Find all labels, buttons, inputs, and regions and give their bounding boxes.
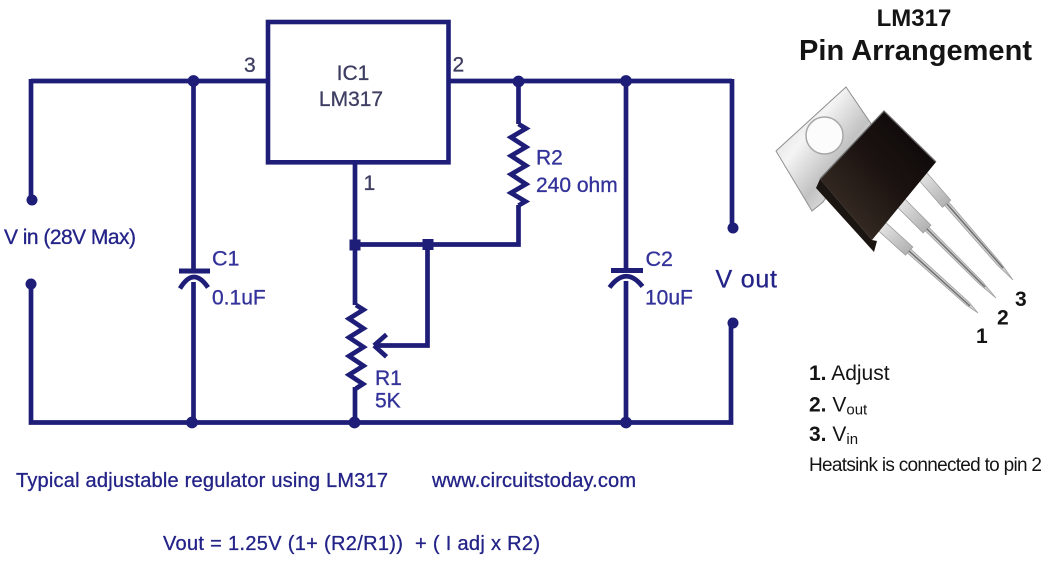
svg-text:Typical adjustable regulator u: Typical adjustable regulator using LM317 [16,470,388,492]
node Vout lower terminal [728,318,739,329]
resistor R2 zigzag [511,124,526,206]
pin number 1 of IC1 [364,172,376,195]
svg-text:1. Adjust: 1. Adjust [809,362,890,385]
svg-text:2. Vout: 2. Vout [809,394,868,419]
svg-text:3. Vin: 3. Vin [809,423,858,448]
svg-text:C1: C1 [212,247,239,271]
resistor R1 zigzag potentiometer [349,305,364,389]
wire IC pin 1 vertical [353,164,358,245]
wire wiper vertical from junction [377,245,428,346]
node junction C2 bottom [620,417,632,429]
svg-text:5K: 5K [375,390,401,413]
wire C1 branch lower [191,282,196,423]
svg-text:2: 2 [997,307,1009,330]
svg-text:C2: C2 [646,247,673,271]
LM317 package plastic body left side face [816,179,877,252]
LM317 package metal tab [776,87,874,211]
wire top rail from Vin corner to IC pin 3 [31,79,268,84]
capacitor C2 [610,268,644,288]
wire adj horizontal to R2 bottom [355,205,519,245]
formula Vout equation [163,533,540,555]
svg-text:240 ohm: 240 ohm [536,174,618,197]
wire left input rail upper segment [29,79,34,200]
wire left input rail lower segment [31,284,192,423]
IC op U1 box IC1 LM317 [268,22,449,162]
pin number 2 of IC1 [453,54,465,77]
node junction pin1 / R1 top [350,240,361,251]
title Pin Arrangement [799,35,1032,67]
svg-text:3: 3 [244,54,256,77]
node Vin lower terminal [26,279,37,290]
svg-text:R1: R1 [375,367,402,390]
label 10uF [645,287,693,310]
svg-text:V in (28V Max): V in (28V Max) [4,226,136,249]
label 5K [375,390,401,413]
LM317 package pin 3 lead [915,168,1013,280]
wiper arrowhead pointing at R1 [374,335,387,357]
legend 1. Adjust [809,362,890,385]
svg-text:IC1: IC1 [337,62,370,85]
svg-text:3: 3 [1015,288,1027,311]
node junction wiper branch [423,239,434,250]
svg-text:Pin Arrangement: Pin Arrangement [799,35,1032,67]
svg-text:V out: V out [716,266,778,294]
capacitor C1 [179,269,210,289]
LM317 package plastic body front face [820,111,936,240]
label V out [716,266,778,294]
node junction R1 bottom [349,417,361,429]
wire R2 branch upper [516,81,521,124]
label R1 [375,367,402,390]
note Heatsink is connected to pin 2 [809,455,1042,476]
legend 2. Vout [809,394,868,419]
svg-text:0.1uF: 0.1uF [212,287,266,310]
label 0.1uF [212,287,266,310]
svg-text:1: 1 [976,325,988,348]
svg-text:LM317: LM317 [319,88,383,111]
svg-text:Heatsink is connected to pin 2: Heatsink is connected to pin 2 [809,455,1042,476]
wire R1 branch lower [353,387,358,423]
caption Typical adjustable regulator using LM317 [16,470,388,492]
wire right output rail upper segment [730,79,735,228]
label IC1 [337,62,370,85]
label V in (28V Max) [4,226,136,249]
LM317 package pin 2 lead [893,195,996,298]
svg-text:LM317: LM317 [877,5,952,32]
node junction C1 bottom [186,417,198,429]
package pin label 2 [997,307,1009,330]
label LM317 [319,88,383,111]
label 240 ohm [536,174,618,197]
package pin label 3 [1015,288,1027,311]
wire top rail from IC pin 2 to Vout corner [447,79,732,84]
node Vin upper terminal [27,195,38,206]
label R2 [536,147,563,170]
node Vout upper terminal [728,223,739,234]
svg-text:www.circuitstoday.com: www.circuitstoday.com [431,470,636,492]
wire C2 branch upper [624,81,629,269]
node junction C2 top [620,75,632,87]
LM317 package pin 1 lead [874,219,978,313]
svg-text:2: 2 [453,54,465,77]
svg-text:R2: R2 [536,147,563,170]
node junction C1 top [188,75,200,87]
wire C1 branch upper [191,81,196,269]
pin number 3 of IC1 [244,54,256,77]
label C2 [646,247,673,271]
node junction R2 top [513,76,525,88]
LM317 package tab hole [806,117,843,154]
package pin label 1 [976,325,988,348]
wire R1 branch upper [353,245,358,305]
wire bottom rail [192,323,731,423]
legend 3. Vin [809,423,858,448]
caption www.circuitstoday.com [431,470,636,492]
svg-text:10uF: 10uF [645,287,693,310]
svg-text:1: 1 [364,172,376,195]
label C1 [212,247,239,271]
title LM317 [877,5,952,32]
wire C2 branch lower [624,281,629,423]
svg-text:Vout = 1.25V (1+ (R2/R1)) + (: Vout = 1.25V (1+ (R2/R1)) + ( I adj x R2… [163,533,540,555]
